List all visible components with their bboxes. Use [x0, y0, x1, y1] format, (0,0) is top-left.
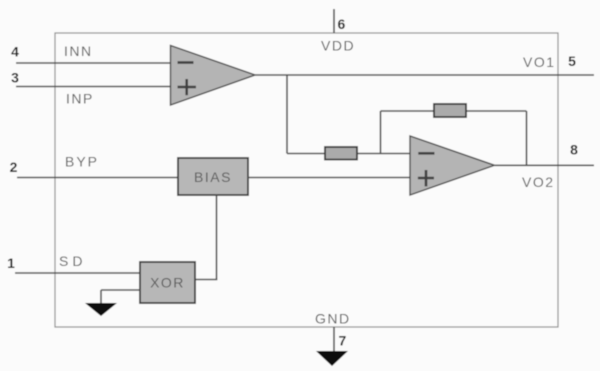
wire BIAS bottom to XOR	[216, 195, 218, 280]
resistor R2 feedback resistor	[434, 104, 466, 117]
svg-text:INN: INN	[64, 43, 93, 59]
wire pin 4 INN input	[16, 62, 170, 64]
op-amp U1	[171, 46, 256, 106]
wire to U2 inverting input	[287, 153, 410, 155]
svg-text:6: 6	[338, 16, 346, 32]
wire BIAS output to U2 plus input	[248, 177, 410, 179]
op-amp U2 plus input symbol	[418, 170, 434, 186]
svg-text:VO1: VO1	[523, 54, 556, 70]
svg-text:1: 1	[7, 255, 15, 271]
wire ground stub vertical	[100, 290, 102, 304]
IC outline box	[55, 33, 558, 327]
wire op-amp U2 output to pin 8	[495, 164, 595, 166]
op-amp U2	[410, 136, 495, 195]
svg-text:4: 4	[11, 44, 19, 60]
ground symbol near XOR	[85, 303, 117, 316]
svg-text:2: 2	[10, 159, 18, 175]
wire junction down from U1 output	[286, 75, 288, 154]
XOR block	[140, 262, 195, 303]
wire pin 1 SD to XOR	[15, 272, 140, 274]
wire op-amp U1 output to pin 5	[255, 74, 594, 76]
svg-text:INP: INP	[66, 91, 94, 107]
wire feedback down to U2 output	[526, 111, 528, 165]
svg-text:SD: SD	[59, 253, 86, 269]
svg-text:8: 8	[570, 142, 578, 158]
wire pin 7 GND stub	[333, 327, 335, 352]
svg-text:BYP: BYP	[65, 154, 99, 170]
svg-text:7: 7	[339, 333, 347, 349]
wire pin 3 INP input	[16, 86, 170, 88]
wire feedback tap vertical	[380, 111, 382, 154]
resistor R1 input resistor	[325, 147, 357, 160]
wire XOR output horizontal	[195, 279, 217, 281]
wire XOR to ground horizontal	[101, 289, 140, 291]
op-amp U1 minus input symbol	[178, 61, 194, 64]
wire pin 2 BYP to BIAS	[17, 177, 178, 179]
svg-text:5: 5	[568, 53, 576, 69]
svg-text:VO2: VO2	[522, 174, 555, 190]
wire feedback top horizontal	[381, 110, 527, 112]
svg-text:XOR: XOR	[150, 275, 185, 291]
wire pin 6 VDD stub	[333, 9, 335, 33]
svg-text:BIAS: BIAS	[194, 169, 232, 185]
op-amp U1 plus input symbol	[178, 79, 197, 95]
svg-text:GND: GND	[315, 311, 351, 327]
BIAS block	[178, 158, 248, 195]
op-amp U2 minus input symbol	[418, 152, 434, 155]
ground symbol GND pin	[316, 351, 348, 366]
svg-text:VDD: VDD	[321, 38, 355, 54]
svg-text:3: 3	[11, 70, 19, 86]
